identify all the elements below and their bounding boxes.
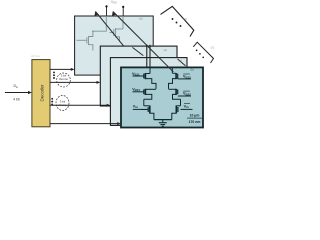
svg-text:binary: binary <box>59 103 67 107</box>
svg-text:170 nm: 170 nm <box>189 120 201 124</box>
svg-text:(a): (a) <box>179 59 183 63</box>
svg-text:(3): (3) <box>184 17 188 21</box>
svg-text:VB21: VB21 <box>132 87 140 92</box>
svg-text:(a): (a) <box>164 48 168 52</box>
svg-text:Decoder: Decoder <box>40 84 45 102</box>
svg-text:Vin: Vin <box>184 104 189 109</box>
svg-text:Vin: Vin <box>133 104 138 109</box>
svg-text:thermo: thermo <box>59 77 68 81</box>
svg-text:(b): (b) <box>191 68 195 72</box>
svg-text:10 μm: 10 μm <box>190 114 200 118</box>
svg-text:VB11: VB11 <box>132 72 140 77</box>
svg-text:4 bit: 4 bit <box>13 97 19 101</box>
svg-text:4/8 dec: 4/8 dec <box>31 54 41 58</box>
svg-text:(3): (3) <box>211 46 214 50</box>
svg-text:(a): (a) <box>139 17 143 21</box>
